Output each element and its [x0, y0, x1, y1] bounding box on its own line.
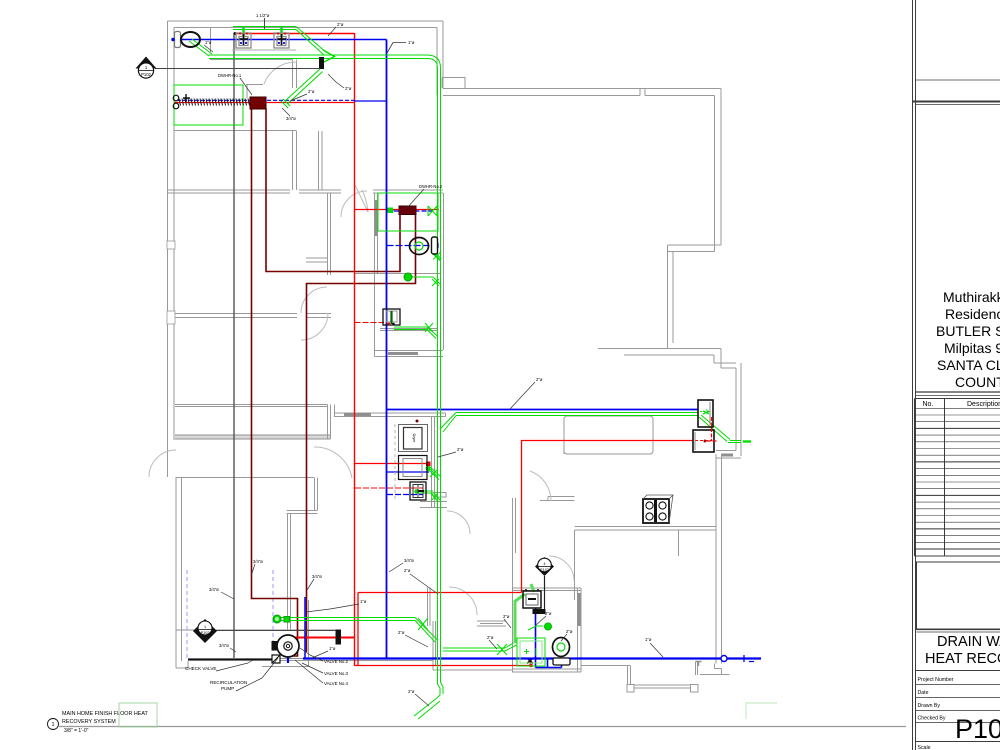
wall top outer: [168, 20, 444, 22]
wall bay bottom band: [627, 685, 698, 688]
stamp box: [917, 562, 1000, 629]
wall bath3 window thick: [388, 352, 418, 355]
blue tick pump: [287, 652, 289, 663]
green bowtie lav: [425, 323, 433, 332]
green floor drain circle 1: [404, 273, 412, 281]
svg-text:1: 1: [204, 625, 206, 629]
sink counter line: [232, 49, 296, 51]
svg-text:P102: P102: [141, 72, 151, 77]
green bright dash end: [743, 440, 751, 442]
red pipe kitchen supply horizontal: [358, 592, 522, 594]
svg-text:No.: No.: [923, 401, 934, 408]
wall laundry window thick: [344, 413, 371, 416]
svg-text:4: 4: [544, 562, 546, 566]
wall bath3 pocket left: [375, 193, 378, 274]
green pan symbols: [524, 648, 536, 656]
fixture washer box: [399, 456, 428, 480]
fixture toilet3 bowl: [553, 638, 570, 657]
wall right mid vertical pair: [668, 245, 674, 349]
svg-text:3/4"ø: 3/4"ø: [404, 558, 414, 563]
section S4 drop line: [544, 576, 546, 609]
blue pipe laundry sink: [387, 494, 423, 496]
svg-text:Scale: Scale: [918, 745, 931, 750]
wall hall band top: [175, 405, 328, 407]
green shower branch pair: [443, 648, 505, 651]
svg-text:2"ø: 2"ø: [337, 22, 344, 27]
svg-text:Description: Description: [967, 401, 1000, 408]
section symbol S1: [136, 57, 157, 69]
green lav drain: [394, 327, 438, 339]
blue end symbol: [741, 655, 754, 662]
blue dot left end: [171, 38, 175, 42]
blue circle fitting on bottom main: [721, 656, 727, 662]
svg-text:2"ø: 2"ø: [487, 635, 494, 640]
green pipe corner arc to vertical: [427, 55, 441, 68]
pump flange: [272, 641, 278, 651]
red pipe top horizontal: [235, 33, 355, 35]
wall bottom mid segment: [581, 665, 630, 667]
fixture toilet2 tank: [432, 237, 438, 254]
fixture toilet3 tank: [553, 658, 570, 665]
red pipe parallel vertical short: [357, 593, 359, 667]
wall interior vertical x327 upper: [328, 193, 331, 276]
svg-text:PUMP: PUMP: [221, 686, 234, 691]
svg-text:2"ø: 2"ø: [408, 689, 415, 694]
green shower pan rect: [517, 638, 545, 666]
wall laundry top: [334, 413, 446, 417]
fixture cooktop: [643, 499, 669, 523]
green washer drain diag: [427, 466, 441, 480]
wall garage band thick: [188, 658, 345, 660]
green sink tick 2: [280, 26, 282, 36]
svg-text:1"ø: 1"ø: [645, 637, 652, 642]
svg-text:Project Number: Project Number: [918, 677, 954, 683]
wall right bottom step: [700, 664, 730, 675]
wall bath3 bottom y273: [355, 273, 440, 275]
fixture toilet2 bowl: [410, 238, 429, 255]
svg-text:2"ø: 2"ø: [308, 89, 315, 94]
fixture sink1: [236, 33, 251, 48]
dashed future blue vertical 1: [186, 570, 188, 658]
door arc kitchen: [530, 471, 551, 501]
wall laundry column: [432, 417, 435, 509]
cleanout black bar top: [319, 57, 324, 69]
wall hall band bottom thick: [175, 435, 331, 439]
blue pipe DWHR2: [387, 210, 434, 212]
wall toilet room pocket thick: [578, 593, 581, 626]
svg-text:2"ø: 2"ø: [398, 630, 405, 635]
blue pipe main vertical: [386, 40, 388, 659]
green laundry sink drain line: [417, 491, 441, 502]
wall hall lower step: [287, 478, 318, 514]
fixture toilet1 bowl: [181, 32, 200, 47]
check valve symbol: [272, 655, 280, 663]
wall bath y130: [174, 130, 297, 132]
gas line dark gray vertical: [233, 33, 235, 658]
green shower drain circle: [544, 623, 551, 630]
svg-text:DRAIN WATER: DRAIN WATER: [937, 634, 1000, 650]
wall long horizontal upper-right outer: [443, 88, 721, 90]
green bath2 horizontal pair: [281, 618, 415, 621]
red pipe to lav: [355, 322, 385, 324]
blue pipe washer: [387, 471, 429, 473]
wall kitchen vertical left: [574, 530, 576, 600]
pump suction line: [188, 659, 277, 661]
info divider: [916, 670, 1000, 672]
wall bath3 vanity: [380, 329, 438, 331]
wall nook vertical pair: [736, 363, 741, 456]
wall mid horizontal (bedroom divider): [168, 314, 331, 318]
wall top wall of bedrooms y190: [168, 190, 443, 193]
wall nook right step: [714, 349, 736, 369]
project text: [936, 289, 1000, 390]
svg-text:2"ø: 2"ø: [536, 377, 543, 382]
svg-text:3/4"ø: 3/4"ø: [312, 574, 322, 579]
svg-text:COUNTY: COUNTY: [955, 374, 1000, 390]
pale green corner bottom right: [746, 703, 777, 719]
DWHR2 unit body: [399, 206, 416, 215]
svg-text:3/4"ø: 3/4"ø: [286, 116, 296, 121]
red pipe pump outlet: [288, 637, 355, 639]
green cleanout riser kitchen box: [703, 411, 709, 414]
svg-text:Residence: Residence: [945, 306, 1000, 322]
green pipe toilet1 branch: [189, 39, 212, 56]
svg-text:RECOVERY SYSTEM: RECOVERY SYSTEM: [62, 719, 116, 725]
green fitting at dwhr1: [281, 99, 290, 108]
svg-text:1"ø: 1"ø: [205, 40, 212, 45]
DWHR1 unit body: [250, 97, 266, 109]
red pipe kitchen range dashes: [695, 440, 712, 442]
blue pipe DWHR1 dashed: [177, 99, 354, 101]
green bowtie washer: [430, 469, 438, 477]
info rows: [918, 677, 954, 750]
wall laundry connector vertical: [334, 405, 336, 417]
wall interior vertical x318 bath closet: [319, 131, 323, 190]
green tail diag: [414, 698, 440, 719]
green bowtie shower branch: [497, 644, 507, 655]
wall bath3 left vertical: [374, 274, 376, 357]
green toilet2 drain diag: [431, 251, 442, 261]
green kitchen right diag: [699, 415, 730, 442]
green pipe sink manifold: [233, 27, 296, 30]
titleblock inner vertical: [915, 0, 917, 750]
fixture toilet1 tank: [175, 32, 181, 48]
wall hall lower left stub: [176, 477, 314, 479]
green shower vertical: [514, 601, 517, 643]
wall right vertical upper: [715, 89, 722, 246]
green shower valve diag: [514, 594, 525, 602]
svg-text:Muthirakkal: Muthirakkal: [943, 289, 1000, 305]
green bowtie laundry: [431, 493, 438, 501]
svg-text:CHECK VALVE: CHECK VALVE: [185, 666, 217, 671]
fixture shower valve box: [523, 591, 541, 608]
scale divider: [916, 741, 1000, 743]
wall left outer: [167, 21, 169, 477]
wall right vertical lower: [716, 454, 722, 664]
door arc toilet room: [549, 556, 574, 581]
wall nook window sill: [716, 451, 741, 459]
svg-text:1"ø: 1"ø: [360, 599, 367, 604]
green kitchen right stub: [728, 441, 741, 443]
valve bar on red outlet: [336, 630, 342, 645]
titleblock outer vertical: [912, 0, 914, 750]
svg-text:P100: P100: [955, 714, 1000, 744]
red pipe to washer: [355, 463, 430, 465]
wall bay post left: [627, 685, 634, 693]
wall bay east T: [696, 662, 702, 667]
red dot end: [529, 664, 533, 668]
wall small box on long wall: [442, 78, 465, 89]
maroon pipe DWHR1 right to DWHR2: [266, 108, 400, 272]
wall top inner: [174, 27, 437, 29]
wall bottom garage: [188, 661, 433, 671]
svg-text:2"ø: 2"ø: [404, 568, 411, 573]
wall bay post right: [691, 685, 699, 693]
wall stub y258: [306, 258, 328, 262]
revision header: [923, 401, 1000, 408]
door arc entry: [149, 450, 176, 477]
wall bottom bath2 segment: [433, 669, 512, 671]
svg-text:2"ø: 2"ø: [345, 86, 352, 91]
fixture sink2: [274, 33, 289, 48]
fixture sink1 cross: [243, 34, 245, 45]
island kitchen: [564, 416, 653, 454]
blue shower riser: [536, 608, 562, 668]
wall kitchen west stub: [540, 497, 575, 501]
green toilet3 ring: [557, 643, 565, 651]
green main lines: [174, 26, 751, 719]
fixture lav pedestal: [383, 309, 400, 325]
wall band right verticals: [328, 405, 331, 440]
svg-text:3/8" = 1'-0": 3/8" = 1'-0": [64, 728, 89, 734]
wall left lower outer: [176, 477, 188, 668]
svg-text:SANTA CLARA: SANTA CLARA: [937, 357, 1000, 373]
svg-text:2"ø: 2"ø: [566, 629, 573, 634]
green pipe main vertical pair: [438, 68, 441, 676]
wall bath door stub y84: [246, 85, 263, 99]
svg-text:DWHR-No.1: DWHR-No.1: [218, 73, 242, 78]
blue pipe bottom main: [303, 657, 761, 659]
red pipe kitchen riser: [522, 441, 694, 593]
green floor drain 1 line: [412, 277, 440, 286]
wall kitchen south: [575, 527, 717, 531]
svg-text:Date: Date: [918, 690, 929, 696]
wall left lower inner: [181, 477, 183, 661]
wall bath2 closet verticals: [428, 588, 431, 627]
svg-text:P102: P102: [540, 568, 548, 572]
wall vertical small x433 laundryhall: [433, 621, 436, 666]
valve bar near S4: [533, 609, 546, 614]
DWHR1 coil hatch: [179, 99, 250, 106]
red pipe main vertical: [354, 33, 356, 666]
green rect DWHR2 room: [378, 193, 438, 231]
svg-text:Dryer: Dryer: [412, 434, 416, 444]
red dot start: [234, 32, 237, 35]
fixture kitchen fridge box: [698, 400, 713, 427]
sheet title divider: [916, 629, 1000, 631]
section line upper: [155, 68, 320, 70]
svg-text:VALVE No.4: VALVE No.4: [324, 681, 349, 686]
fixture dryer box: [399, 425, 428, 452]
red pipe bottom horizontal: [355, 665, 532, 667]
dashed future blue vertical 2: [272, 570, 274, 660]
door arc bath3 room: [449, 587, 477, 615]
titleblock logo band line: [916, 79, 1000, 81]
kitchen dash upper cabinet: [563, 430, 565, 454]
legend rect pale green: [119, 703, 157, 727]
red pipe to laundry sink: [355, 487, 423, 489]
window break left wall 1: [167, 241, 175, 249]
blue pipe short riser x305: [304, 597, 306, 659]
wall right of green riser: [443, 193, 445, 350]
svg-text:Drawn By: Drawn By: [918, 703, 941, 709]
door arcs hall mid: [301, 287, 327, 313]
green kitchen bend diag: [440, 413, 456, 433]
svg-text:BUTLER ST: BUTLER ST: [936, 323, 1000, 339]
wall bath vertical x292 lower: [293, 131, 297, 190]
green fitting square bath2: [284, 617, 290, 623]
red pipe to DWHR2: [355, 209, 440, 211]
fixture laundry sink: [410, 482, 426, 500]
svg-text:2"ø: 2"ø: [457, 447, 464, 452]
wall bath3 south: [375, 351, 444, 357]
wall bath vanity line y59: [210, 59, 293, 61]
door leaf+arc bedroom1 top: [341, 191, 367, 217]
green fitting DWHR2 left: [388, 208, 393, 213]
svg-text:VALVE No.3: VALVE No.3: [324, 671, 349, 676]
recirculation pump body: [277, 635, 299, 657]
wall garage front: [176, 629, 336, 631]
revision rows: [915, 408, 1000, 549]
door arc bath3 pocket: [355, 185, 368, 212]
green wye fitting: [323, 50, 335, 63]
blue pipe toilet2: [387, 245, 438, 247]
green bath2 diag to main: [415, 618, 438, 643]
maroon pipe DWHR1 left down: [252, 108, 298, 656]
green room rect master bath: [174, 85, 243, 125]
door arc bath2: [447, 511, 470, 534]
green toilet2 ring: [415, 242, 423, 250]
wall bath3 pocket thick: [375, 200, 378, 236]
blue pipe top horizontal: [174, 39, 387, 41]
wall laundry window sill right: [434, 493, 446, 498]
svg-text:MAIN HOME FINISH FLOOR HEAT: MAIN HOME FINISH FLOOR HEAT: [62, 711, 149, 717]
green shower drain line: [528, 626, 543, 630]
green pipe diag to DWHR1: [285, 69, 323, 104]
wall bottom bath segment: [512, 669, 581, 672]
svg-text:1: 1: [51, 722, 54, 728]
wall plan right top vertical: [437, 21, 443, 96]
fixture kitchen range box: [693, 430, 714, 452]
svg-text:2"ø: 2"ø: [503, 614, 510, 619]
svg-text:DWHR-No.2: DWHR-No.2: [419, 184, 443, 189]
wall bath2 top: [420, 502, 447, 508]
wall mech closet right: [262, 600, 309, 667]
wall bay east: [696, 662, 698, 676]
blue pipe kitchen horizontal: [387, 409, 699, 411]
wall long horizontal upper-right inner: [443, 89, 715, 96]
titleblock thick divider: [913, 101, 1000, 103]
wall dining step left: [628, 666, 631, 685]
wall toilet room divider: [210, 28, 212, 53]
section symbol S4: [535, 557, 554, 576]
green tail bottom: [437, 676, 443, 698]
section symbol S2: [193, 619, 217, 643]
svg-text:1"ø: 1"ø: [329, 646, 336, 651]
green pipe master horizontal pair: [209, 55, 427, 59]
svg-text:Milpitas 95035: Milpitas 95035: [944, 340, 1000, 356]
wall step at right: [668, 244, 722, 252]
svg-text:2"ø: 2"ø: [545, 611, 552, 616]
sheet title text: [925, 634, 1000, 667]
svg-text:Checked By: Checked By: [918, 716, 946, 722]
svg-text:3/4"ø: 3/4"ø: [209, 587, 219, 592]
green pipe diag manifold to main: [296, 27, 327, 56]
green shower pan inner: [520, 641, 542, 663]
svg-text:P102: P102: [201, 631, 210, 635]
DWHR2 coil hatch: [401, 206, 413, 214]
door arc hall lower: [314, 447, 352, 478]
revision table outer: [915, 399, 1000, 557]
red pipe to DWHR1: [174, 102, 355, 104]
revision table column: [944, 399, 946, 557]
door arc master bath: [264, 62, 297, 84]
green arrow in fridge box: [700, 410, 709, 414]
wall shower room left: [513, 498, 516, 672]
green sink tick 1: [242, 26, 244, 36]
wall left inner: [173, 28, 175, 441]
wall bath vertical x292 upper: [293, 60, 297, 89]
svg-text:HEAT RECOVERY: HEAT RECOVERY: [925, 651, 1000, 667]
wall bath2 window sill: [477, 621, 506, 626]
section line lower: [214, 630, 336, 632]
wall shower room top: [513, 588, 582, 591]
green bowtie DWHR2 right: [428, 206, 437, 216]
project section bottom divider: [916, 391, 1000, 393]
svg-text:3/4"ø: 3/4"ø: [219, 643, 229, 648]
svg-text:1"ø: 1"ø: [408, 40, 415, 45]
wall toilet room divider x578: [578, 588, 582, 672]
wall nook hatch: [721, 454, 733, 457]
svg-text:VALVE No.2: VALVE No.2: [324, 659, 349, 664]
fixture sink2 cross: [281, 34, 283, 45]
green kitchen horizontal pair: [456, 413, 698, 416]
wall mech room vertical: [288, 514, 291, 631]
green floor drain circle 2: [273, 615, 281, 623]
maroon pipe DWHR2 right down: [307, 215, 416, 652]
wall kitchen vertical mid: [678, 530, 680, 556]
hose bib left: [173, 95, 179, 101]
svg-text:1 1/2"ø: 1 1/2"ø: [256, 13, 270, 18]
svg-text:RECIRCULATION: RECIRCULATION: [210, 680, 247, 685]
window break left wall 2: [167, 311, 175, 324]
green bowtie bath2: [418, 618, 428, 630]
green shower to branch diag: [505, 643, 517, 651]
svg-text:3/4"ø: 3/4"ø: [253, 559, 263, 564]
island dashed counter: [567, 453, 650, 455]
wall horizontal at kitchen nook top: [598, 349, 721, 356]
